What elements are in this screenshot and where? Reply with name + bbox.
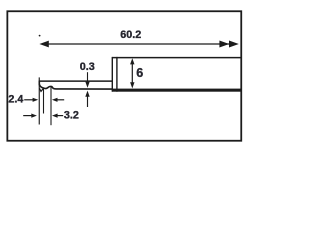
svg-text:3.2: 3.2 (64, 109, 79, 121)
svg-text:2.4: 2.4 (8, 94, 23, 106)
svg-text:0.3: 0.3 (80, 61, 95, 73)
svg-text:60.2: 60.2 (120, 29, 141, 41)
svg-text:6: 6 (136, 66, 143, 80)
